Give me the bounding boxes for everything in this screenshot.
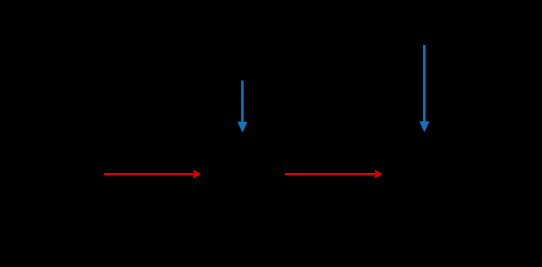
blue arrow 2 (vertical, right, pointing down): [420, 45, 428, 131]
red arrow 1 (horizontal, left, pointing right): [104, 171, 200, 178]
blue arrow 1 (vertical, center, pointing down): [238, 81, 246, 132]
red arrow 2 (horizontal, middle, pointing right): [285, 171, 382, 178]
